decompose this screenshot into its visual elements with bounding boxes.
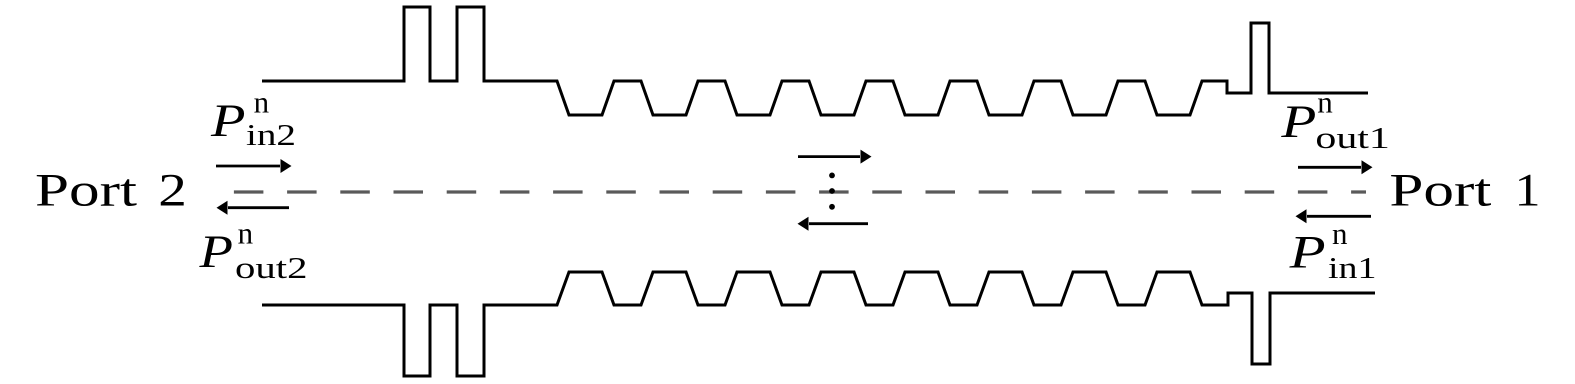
vertical ellipsis dots (mode index n) [829,173,835,210]
svg-text:1: 1 [1515,165,1541,217]
arrow P_out2 (left-pointing, bottom-left) [217,201,290,215]
bottom wall profile [262,272,1375,376]
label P^n_out2 [198,215,307,285]
Port 1 text [1389,165,1540,217]
svg-text:2: 2 [158,165,187,217]
label P^n_in2 [210,85,296,152]
svg-text:out2: out2 [235,250,308,285]
svg-text:P: P [210,95,246,147]
arrow backward wave (center, left-pointing) [798,217,869,231]
svg-text:in2: in2 [246,117,296,152]
svg-text:out1: out1 [1315,120,1390,155]
Port 2 text [35,165,187,217]
svg-text:n: n [1332,216,1348,251]
arrow P_in1 (left-pointing, bottom-right) [1296,209,1372,223]
arrow forward wave (center, right-pointing) [798,150,872,164]
arrow P_in2 (right-pointing, top-left) [216,159,292,173]
svg-text:n: n [238,215,254,250]
svg-text:P: P [1288,227,1325,279]
top wall profile [262,7,1368,115]
svg-text:in1: in1 [1328,250,1377,285]
label P^n_out1 [1280,84,1390,155]
svg-text:P: P [1280,96,1316,148]
svg-text:Port: Port [1389,165,1491,217]
svg-text:Port: Port [35,165,137,217]
label P^n_in1 [1288,216,1376,285]
arrow P_out1 (right-pointing, top-right) [1298,160,1373,174]
svg-text:n: n [1317,84,1333,119]
svg-text:n: n [254,85,270,120]
dashed axis centerline [234,190,1366,193]
svg-text:P: P [198,226,233,278]
